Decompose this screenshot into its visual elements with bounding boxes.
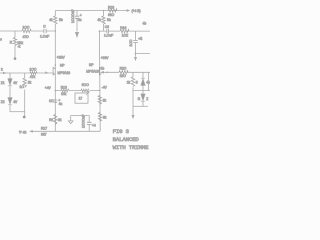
svg-text:1.OuF: 1.OuF: [40, 34, 49, 38]
svg-text:Z1: Z1: [1, 81, 5, 85]
svg-text:Z2: Z2: [1, 100, 5, 104]
wire R18 column: [103, 11, 105, 32]
resistor R16 vertical: [54, 115, 57, 125]
svg-text:+: +: [80, 14, 82, 18]
resistor R22 vertical: [131, 77, 134, 87]
wire base rail right: [100, 71, 150, 73]
svg-text:-k: -k: [18, 45, 21, 49]
arrow head P48: [29, 130, 33, 133]
wire right lower network column: [132, 72, 134, 115]
svg-text:16k: 16k: [61, 92, 67, 96]
junction emitter rail right: [99, 90, 101, 92]
svg-text:3k: 3k: [58, 118, 62, 122]
electrolytic C8 column: [88, 116, 90, 132]
svg-text:2k: 2k: [127, 81, 131, 85]
svg-text:1O: 1O: [20, 85, 25, 89]
svg-text:FIG 3: FIG 3: [113, 128, 129, 135]
resistor column x25 wire: [24, 73, 26, 116]
wire input lower rail: [0, 72, 54, 74]
edge column wire: [148, 72, 150, 90]
resistor R18 vertical: [102, 16, 105, 24]
svg-text:1Ok: 1Ok: [122, 33, 128, 37]
wire right transistor column: [98, 31, 101, 131]
capacitor C1 plates: [44, 29, 46, 33]
svg-text:R16: R16: [120, 26, 126, 30]
svg-text:C6: C6: [105, 25, 109, 29]
svg-text:1.OuF: 1.OuF: [104, 34, 113, 38]
resistor R14 vertical: [98, 96, 101, 105]
resistor R20: [119, 71, 128, 74]
svg-text:47O: 47O: [23, 35, 30, 39]
wire lower right rail: [133, 105, 148, 107]
arrow into base Q2: [100, 71, 104, 74]
svg-text:+4: +4: [138, 37, 142, 41]
svg-text:4k: 4k: [97, 18, 101, 22]
junction right rail column: [99, 30, 101, 32]
svg-text:MP5A18: MP5A18: [58, 71, 71, 75]
svg-text:47k: 47k: [30, 75, 36, 79]
svg-text:NP: NP: [89, 63, 94, 67]
zener D3: [141, 78, 145, 85]
zener D1: [8, 79, 12, 86]
arrow into base Q1: [45, 71, 48, 74]
svg-text:1O: 1O: [49, 99, 54, 103]
capacitor C6 plates: [107, 29, 109, 33]
junction dot output node: [135, 53, 137, 55]
node dot bottom left: [23, 116, 26, 119]
svg-text:1OOOuF: 1OOOuF: [82, 115, 86, 128]
svg-text:2k: 2k: [103, 98, 107, 102]
svg-text:1b: 1b: [101, 67, 105, 71]
svg-text:'P 48: 'P 48: [19, 131, 27, 135]
transistor Q1: [53, 67, 55, 75]
capacitor C2 plates: [75, 16, 80, 18]
trim box: [75, 93, 88, 103]
ground symbol center: [68, 116, 73, 124]
ground arrow right network: [132, 115, 135, 119]
svg-text:R17: R17: [41, 127, 47, 131]
svg-text:(+4 B): (+4 B): [132, 9, 141, 13]
wire output cap column: [135, 31, 137, 53]
resistor R2 vertical: [13, 38, 16, 46]
svg-text:1OOOuF: 1OOOuF: [71, 10, 75, 23]
junction left rail column: [55, 30, 57, 32]
svg-text:R2O: R2O: [120, 66, 127, 70]
ground arrow under C2: [75, 32, 79, 38]
resistor R17 vertical: [98, 113, 101, 122]
svg-text:+4V: +4V: [45, 86, 52, 90]
svg-text:R13: R13: [61, 86, 67, 90]
wire bias stub column: [14, 31, 16, 57]
svg-text:1OO: 1OO: [30, 68, 37, 72]
svg-text:+36V: +36V: [101, 56, 110, 60]
svg-text:+4: +4: [92, 124, 96, 128]
wire emitter rail: [55, 90, 100, 92]
wire bottom rail: [33, 130, 101, 132]
wire output rail: [136, 54, 151, 57]
capacitor C8 plates: [87, 122, 92, 124]
svg-text:R1: R1: [49, 118, 53, 122]
wire top rail: [55, 10, 127, 12]
resistor R19 on top rail: [108, 9, 117, 12]
junction node top of R18 column: [103, 10, 105, 12]
node dot collector Q1: [55, 64, 57, 66]
arrow head top rail: [127, 9, 131, 12]
wire left transistor column: [54, 31, 56, 131]
wire ground rail: [71, 115, 90, 117]
resistor R1: [22, 29, 31, 32]
svg-text:-4V: -4V: [102, 86, 108, 90]
svg-text:5b: 5b: [107, 18, 111, 22]
ground arrow below output node: [134, 57, 137, 61]
junction emitter rail left: [55, 90, 57, 92]
svg-text:4u: 4u: [59, 102, 63, 106]
svg-text:5OO: 5OO: [82, 83, 89, 87]
svg-text:WITH TRIMME: WITH TRIMME: [113, 144, 150, 150]
svg-text:BALANCED: BALANCED: [113, 136, 140, 143]
svg-text:NP: NP: [60, 64, 65, 68]
zener D3 wire: [142, 72, 144, 90]
wire left input rail: [0, 30, 55, 32]
resistor R21: [120, 29, 129, 32]
svg-text:887: 887: [41, 132, 47, 136]
svg-text:5: 5: [136, 81, 138, 85]
zener D4: [141, 94, 145, 101]
trim resistor RT: [81, 89, 89, 92]
zener D4 wire: [142, 91, 144, 107]
capacitor C4 plates on Q1 column: [53, 100, 57, 102]
svg-text:MP5A18: MP5A18: [86, 69, 99, 73]
wire coupling rail right: [99, 30, 150, 32]
svg-text:1OO: 1OO: [23, 26, 30, 30]
transistor Q2: [99, 67, 101, 75]
junction dot base rail: [107, 72, 109, 74]
svg-text:1OO: 1OO: [129, 39, 133, 46]
svg-text:2k: 2k: [28, 80, 32, 84]
wire decoupling cap column: [76, 11, 78, 32]
zener D2: [8, 98, 12, 105]
trim wiper arrow: [86, 91, 89, 95]
capacitor C7 plates: [133, 40, 138, 42]
wire left feed column upper: [54, 11, 56, 32]
arrow head input: [3, 72, 7, 75]
svg-text:3k: 3k: [103, 115, 107, 119]
resistor R5 vertical: [23, 78, 26, 88]
zener column wire: [9, 73, 11, 112]
svg-text:4k: 4k: [49, 18, 53, 22]
resistor R8: [30, 72, 37, 75]
svg-text:Z: Z: [146, 97, 148, 101]
wire bottom left: [10, 111, 25, 113]
svg-text:4b: 4b: [143, 21, 147, 25]
svg-text:+3BV: +3BV: [57, 55, 66, 59]
svg-text:17: 17: [79, 96, 83, 100]
resistor R3 vertical: [54, 16, 57, 24]
svg-text:68O: 68O: [108, 13, 115, 17]
resistor R13: [61, 89, 69, 92]
svg-text:5b: 5b: [59, 18, 63, 22]
svg-text:R19: R19: [108, 5, 114, 9]
svg-text:4u: 4u: [78, 18, 82, 22]
svg-text:o: o: [0, 38, 2, 42]
svg-text:18O: 18O: [120, 74, 127, 78]
wire mid right rail: [133, 90, 150, 92]
node dot stub end: [14, 57, 17, 60]
